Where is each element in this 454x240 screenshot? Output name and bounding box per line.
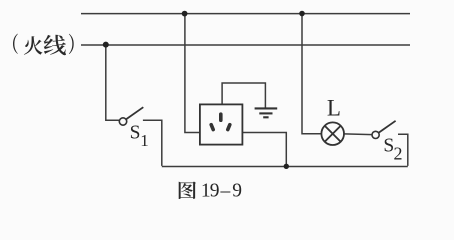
caption: 图 [179,182,196,200]
node: junction on bottom rail (socket return) [284,164,289,169]
wire: socket right terminal to bottom-rail junction [243,133,286,166]
socket (three-pin outlet) [200,104,243,144]
socket slot: earth pin [219,114,223,120]
svg-text:1: 1 [140,131,149,150]
svg-text:–: – [220,181,231,202]
svg-text:9: 9 [210,181,220,202]
node: junction on live rail (S1 branch) [103,42,109,48]
svg-text:L: L [327,96,341,121]
label (火线) : 火 [24,36,43,54]
switch S2 [372,121,396,139]
wire: live rail (火线) [81,44,410,46]
wire: lamp branch from top rail [302,13,322,134]
wire: socket left-terminal branch from top rail [185,13,199,133]
switch S1 [119,107,143,125]
label (火线) : 线 [44,35,66,55]
ground symbol [255,108,278,117]
wire: top neutral rail [81,13,410,15]
svg-text:2: 2 [394,143,403,163]
socket slot: right pin [228,125,230,130]
wire: bottom rail [162,166,408,168]
lamp L [321,122,344,145]
node: junction on top rail (lamp branch) [299,11,305,17]
svg-text:9: 9 [232,181,242,202]
label (火线) : fullwidth open paren [13,34,18,54]
wire: S1 feed from live rail [106,45,120,120]
label S1 [130,122,149,150]
svg-text:S: S [130,122,141,143]
wire: S1 output [143,120,162,166]
wire: right riser to S2 fixed contact [398,134,408,166]
label S2 [383,136,402,164]
node: junction on top rail (socket branch) [182,11,188,17]
label (火线) : fullwidth close paren [69,34,74,54]
wire: lamp to S2 [344,133,372,136]
wire: socket earth lead [222,83,265,108]
socket slot: left pin [211,125,213,130]
